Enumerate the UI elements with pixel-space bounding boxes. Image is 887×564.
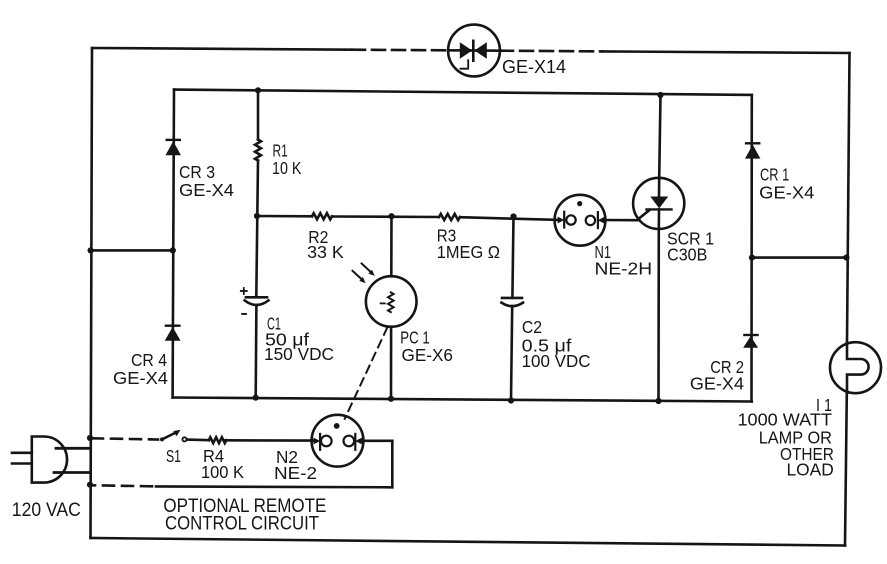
svg-text:GE-X4: GE-X4 — [759, 183, 814, 203]
svg-text:S1: S1 — [166, 446, 181, 466]
svg-text:C30B: C30B — [667, 245, 707, 265]
svg-text:150 VDC: 150 VDC — [264, 344, 334, 364]
svg-text:CR 1: CR 1 — [760, 165, 789, 185]
svg-text:100 K: 100 K — [201, 462, 244, 482]
svg-text:GE-X4: GE-X4 — [113, 368, 168, 388]
svg-text:10 K: 10 K — [272, 158, 302, 178]
svg-text:C2: C2 — [522, 317, 542, 337]
svg-text:CONTROL CIRCUIT: CONTROL CIRCUIT — [165, 513, 319, 535]
svg-text:100 VDC: 100 VDC — [522, 351, 591, 371]
svg-text:GE-X4: GE-X4 — [179, 180, 234, 200]
svg-text:NE-2: NE-2 — [274, 463, 317, 483]
svg-text:120 VAC: 120 VAC — [12, 499, 81, 521]
svg-text:LOAD: LOAD — [787, 460, 834, 480]
svg-text:CR 3: CR 3 — [179, 162, 215, 182]
svg-text:GE-X4: GE-X4 — [690, 374, 744, 394]
svg-text:GE-X14: GE-X14 — [502, 57, 566, 77]
svg-text:CR 4: CR 4 — [131, 350, 167, 370]
svg-text:NE-2H: NE-2H — [595, 259, 653, 279]
svg-text:33 K: 33 K — [307, 242, 344, 262]
svg-text:1MEG Ω: 1MEG Ω — [437, 242, 500, 262]
svg-text:GE-X6: GE-X6 — [402, 345, 453, 365]
